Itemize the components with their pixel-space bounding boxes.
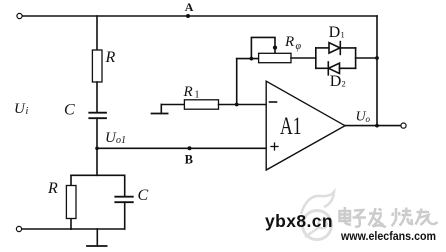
watermark logo: stylized character zi [353,210,367,227]
svg-text:i: i [26,106,29,117]
node B [185,146,193,166]
svg-text:A: A [185,0,194,14]
wire: bottom terminal to RC network [22,228,71,230]
watermark magnifier icon [301,192,334,240]
svg-text:φ: φ [296,41,302,52]
wire: wiper tie loop (up, right, down to wiper arrow) [251,37,275,58]
parallel RC frame: right vertical [124,175,126,196]
svg-text:o: o [366,114,371,124]
diode pair frame: right vertical [355,48,357,68]
svg-text:D: D [330,73,342,90]
svg-text:1: 1 [341,30,345,40]
capacitor C (series, upper left) [64,102,106,119]
input terminal (top left) [17,13,22,18]
svg-text:C: C [138,187,149,204]
watermark logo: stylized character you [416,209,438,226]
parallel RC frame: top bar [71,174,125,176]
watermark logo: stylized character fa [369,208,387,227]
junction: pot left / wiper tie [250,57,254,61]
wire: C down to parallel RC network [96,118,98,175]
resistor R (parallel, lower left) [47,180,76,219]
wire: left branch vertical (top rail to R) [96,16,98,50]
svg-text:R: R [183,84,193,100]
junction: feedback rail / diode output [375,56,379,60]
junction: feedback to inverting input [235,103,239,107]
resistor R1 [183,84,219,109]
potentiometer Rp body [259,34,302,63]
node A [185,0,194,18]
parallel RC frame: bottom bar [71,228,125,230]
watermark logo: stylized character shao [392,208,413,227]
svg-text:ybx8.cn: ybx8.cn [265,211,333,231]
wire: right vertical feedback rail [376,16,378,126]
label Uo [356,110,371,125]
output terminal [401,123,406,128]
diode pair frame: left vertical [315,48,317,68]
svg-text:o1: o1 [116,135,126,146]
wire: top rail from input terminal to right feedback line [22,15,377,17]
wire: R to C [96,82,98,113]
wire: diode pair to feedback rail [356,57,377,59]
junction: output / feedback rail [375,124,379,128]
svg-text:2: 2 [342,79,346,89]
input terminal (bottom left) [16,226,21,231]
wire: feedback vertical from pot down to inverting node [236,59,238,105]
svg-text:R: R [47,180,58,197]
diode D2 (bottom, pointing left) [316,62,356,90]
wire: R1 to op-amp inverting input [219,104,267,106]
label Uo1 [105,130,126,146]
node Uo1 junction [95,147,99,151]
svg-text:1: 1 [195,90,200,101]
svg-text:A1: A1 [280,113,302,140]
capacitor C (parallel, lower) [115,187,148,204]
svg-text:R: R [105,49,116,66]
watermark logo: stylized character dian (dian-zi-fa-shao-you brand mark) [340,207,352,225]
ground (left of R1) [152,105,168,114]
parallel RC frame: left vertical [70,175,72,185]
wire: pot to diode pair [291,57,316,59]
wire: node B horizontal to op-amp + input [97,147,266,149]
svg-text:U: U [14,101,26,117]
ground (below parallel RC) [87,229,107,246]
wiper arrowhead [273,46,277,50]
op-amp A1 [266,81,345,170]
resistor R (series, upper left) [92,49,115,82]
svg-text:B: B [185,153,193,167]
svg-text:C: C [64,102,75,119]
wire: op-amp output [345,125,401,127]
label Ui [14,101,29,117]
svg-text:www.elecfans.com: www.elecfans.com [340,229,436,243]
wire: ground to R1 [161,104,184,106]
wire: feedback horizontal to pot left end [237,58,259,60]
svg-text:R: R [284,34,294,50]
diode D1 (top, pointing right) [316,24,356,54]
svg-text:D: D [329,24,341,41]
